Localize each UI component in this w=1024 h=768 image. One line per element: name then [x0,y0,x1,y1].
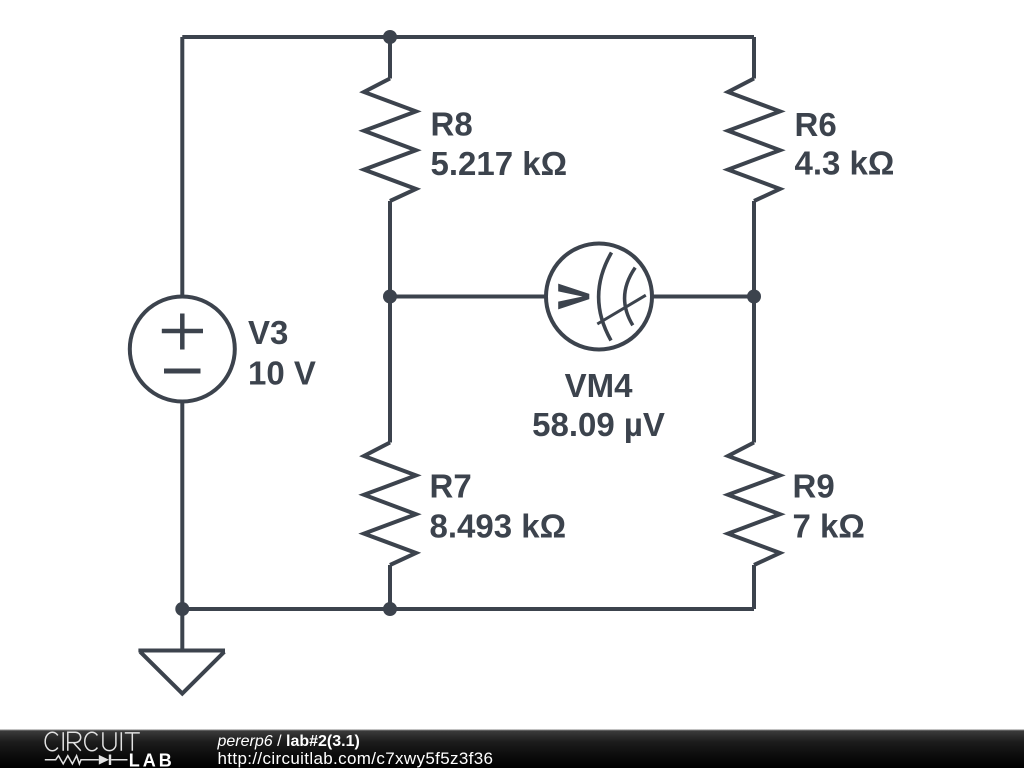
svg-text:R6: R6 [795,106,837,143]
CircuitLab logo resistor-diode line [45,755,128,766]
svg-text:R8: R8 [431,106,473,143]
ground symbol [138,651,225,694]
svg-text:R9: R9 [793,467,835,504]
svg-text:R7: R7 [430,468,472,505]
wire left vertical top (source top lead) [180,37,184,297]
svg-text:pererp6 / lab#2(3.1): pererp6 / lab#2(3.1) [217,733,360,750]
svg-text:http://circuitlab.com/c7xwy5f5: http://circuitlab.com/c7xwy5f5z3f36 [218,749,494,768]
junction node middle right [747,290,761,304]
wire ground lead [180,609,184,651]
resistor R8 [364,79,416,202]
svg-text:VM4: VM4 [565,367,634,404]
junction node middle left [383,290,397,304]
junction node bottom left [175,602,189,616]
wire middle branch top lead [388,37,392,79]
svg-text:V3: V3 [248,314,288,351]
wire middle branch between R8 and R7 [388,201,392,443]
resistor R9 [728,443,780,566]
svg-text:LAB: LAB [129,751,175,768]
voltage source minus sign [164,369,201,374]
svg-text:7 kΩ: 7 kΩ [793,508,865,545]
svg-text:8.493 kΩ: 8.493 kΩ [430,508,567,545]
wire source bottom lead [180,402,184,610]
voltmeter arc small [625,268,636,326]
resistor R6 [728,79,780,202]
footer bar [0,730,1024,768]
wire right branch between R6 and R9 [752,201,756,443]
wire middle horizontal right (voltmeter to node C) [652,295,755,299]
svg-text:10 V: 10 V [248,354,316,391]
svg-text:4.3 kΩ: 4.3 kΩ [795,145,895,182]
svg-text:58.09 µV: 58.09 µV [532,406,665,443]
wire middle branch bottom lead [388,565,392,609]
svg-text:5.217 kΩ: 5.217 kΩ [431,145,568,182]
wire middle horizontal left (node B to voltmeter) [390,295,547,299]
voltage source plus sign [162,314,203,350]
resistor R7 [364,443,416,566]
wire bottom horizontal [182,607,754,611]
junction node bottom middle [383,602,397,616]
voltmeter needle [597,295,646,324]
wire top horizontal [182,35,754,39]
CircuitLab logo CIRCUIT (thin stroked letters) [45,732,140,751]
voltmeter greater-than symbol [558,284,589,310]
voltage source V1 circle [130,297,235,402]
junction node top [383,30,397,44]
voltmeter VM4 circle [546,244,652,350]
voltmeter arc large [599,253,612,341]
wire right vertical top lead [752,37,756,79]
wire right branch bottom lead [752,565,756,609]
